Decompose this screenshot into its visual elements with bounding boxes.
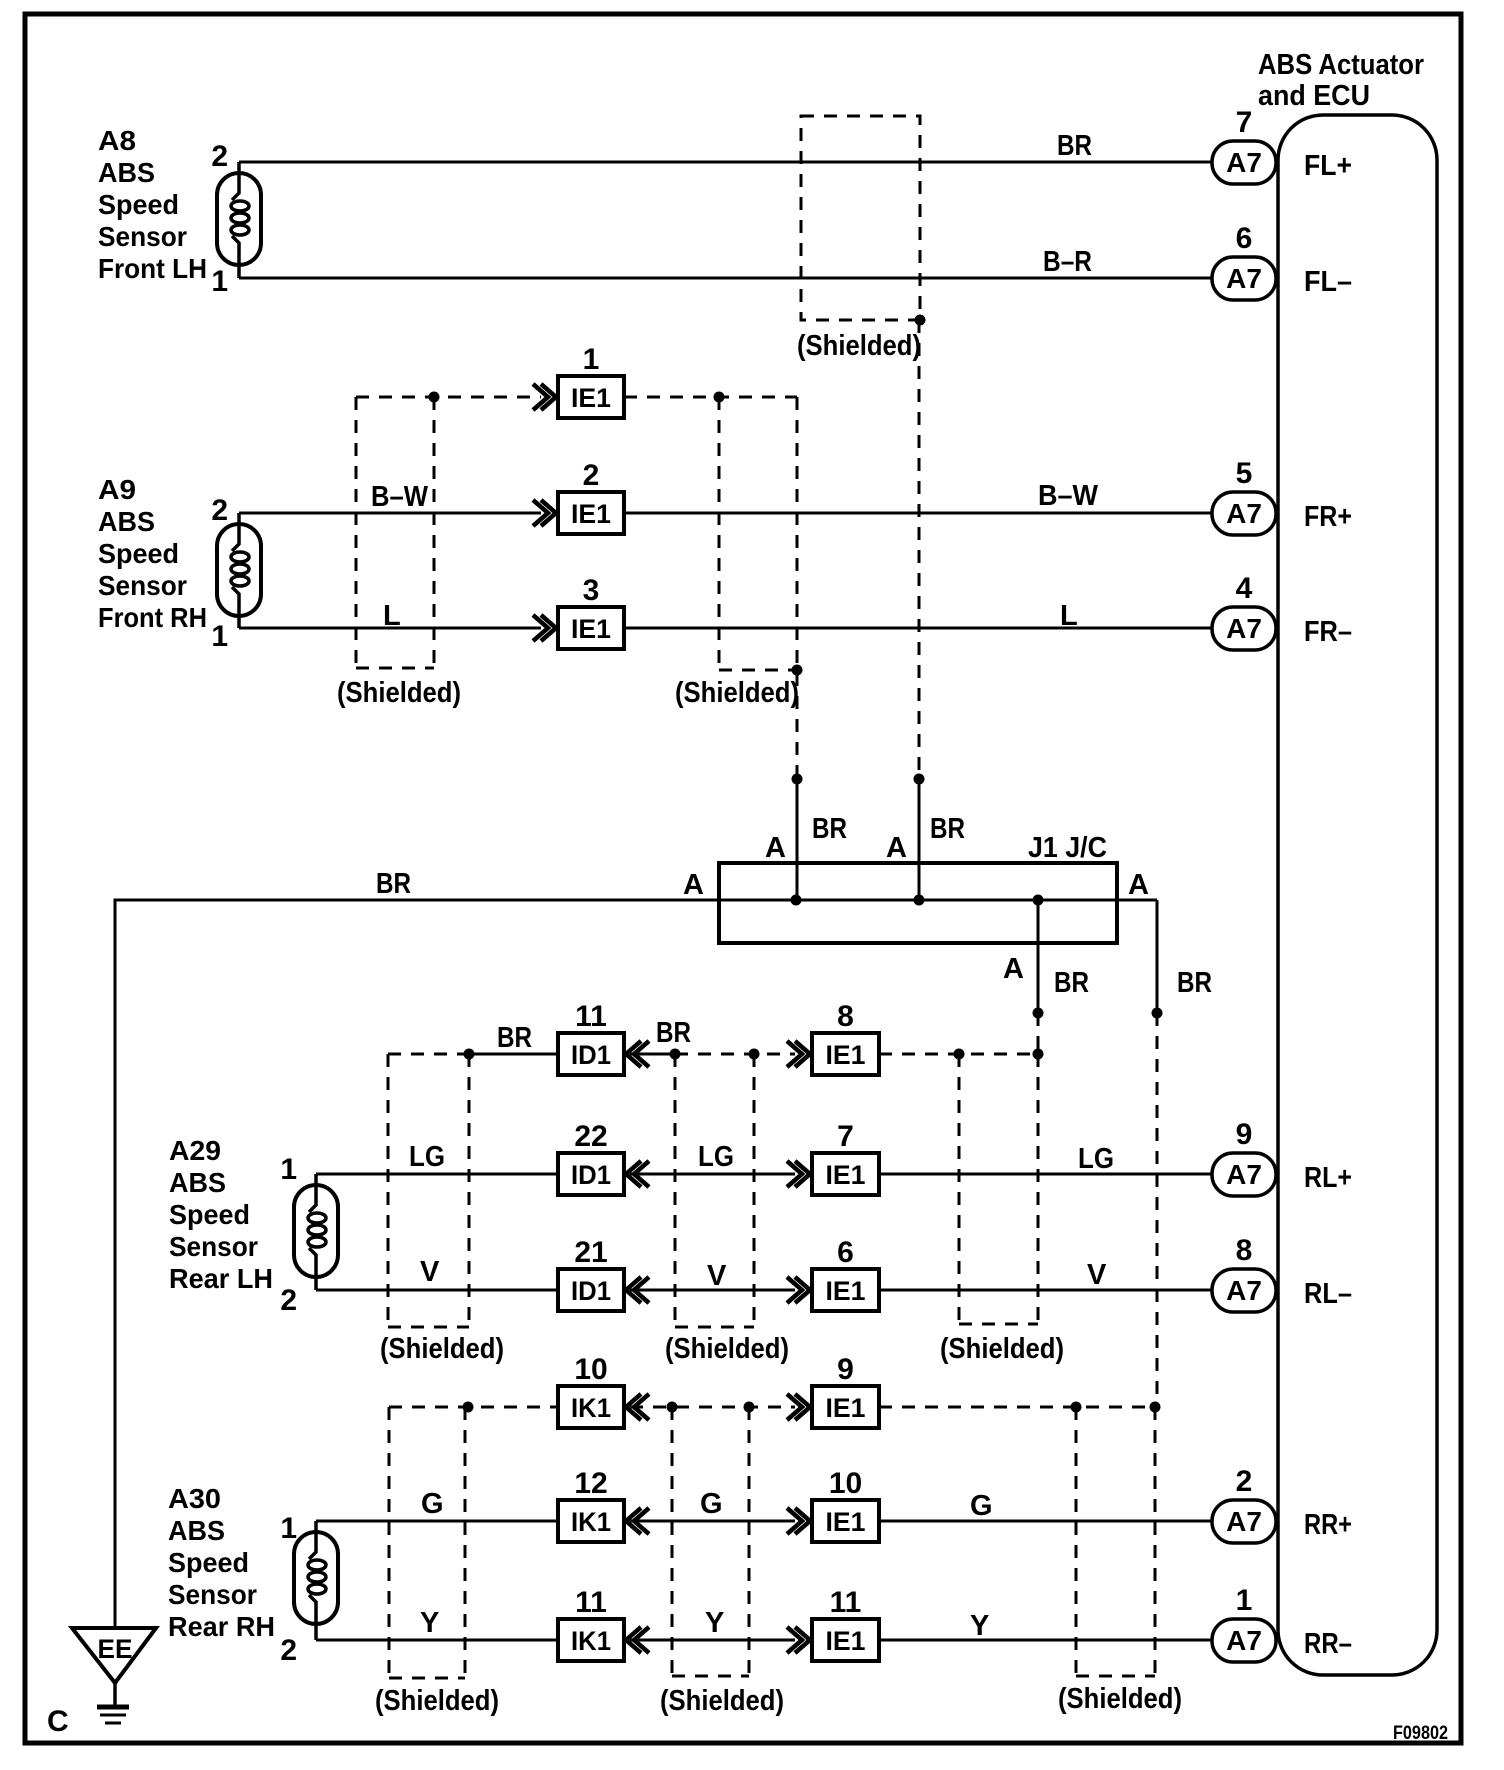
svg-text:Sensor: Sensor <box>169 1231 258 1262</box>
shield drain RL dashed segment mid <box>675 1053 795 1056</box>
svg-text:5: 5 <box>1236 457 1253 490</box>
svg-text:Speed: Speed <box>168 1547 249 1578</box>
svg-text:IE1: IE1 <box>826 1393 866 1423</box>
svg-text:G: G <box>421 1488 444 1520</box>
connector IE1 pin 2 box <box>558 492 624 534</box>
svg-text:Sensor: Sensor <box>168 1579 257 1610</box>
svg-text:ABS: ABS <box>98 157 155 188</box>
sensor A8 ABS Speed Sensor Front LH coil <box>232 162 239 200</box>
svg-text:RL–: RL– <box>1304 1278 1352 1310</box>
connector IK1 pin 11 box <box>558 1619 624 1661</box>
svg-text:12: 12 <box>574 1467 607 1500</box>
svg-text:BR: BR <box>930 813 965 845</box>
junction dot shield drain FL at J1 wire <box>914 774 925 785</box>
svg-text:6: 6 <box>1236 222 1253 255</box>
svg-text:A7: A7 <box>1226 1625 1262 1656</box>
wire RL- from IE1 pin 6 to A7 pin 8 (V) <box>879 1289 1212 1292</box>
junction dot J1 node 3 <box>1033 895 1044 906</box>
svg-text:BR: BR <box>1054 967 1089 999</box>
svg-text:FR+: FR+ <box>1304 501 1352 533</box>
svg-text:A: A <box>886 832 907 864</box>
svg-text:ID1: ID1 <box>571 1276 611 1306</box>
svg-text:F09802: F09802 <box>1393 1723 1448 1744</box>
shield drain wire to IE1 pin 1 (dashed) <box>356 396 541 399</box>
wire RL- from A29 pin 2 to ID1 pin 21 (V) <box>316 1289 558 1292</box>
shield drain RL dashed segment right <box>879 1053 1038 1056</box>
svg-text:7: 7 <box>1236 106 1253 139</box>
svg-text:EE: EE <box>98 1634 133 1664</box>
svg-text:(Shielded): (Shielded) <box>940 1333 1064 1365</box>
svg-text:Y: Y <box>970 1610 989 1642</box>
shield drain vertical to J1 (dashed) <box>796 397 799 779</box>
connector IE1 pin 6 arrow <box>787 1277 810 1303</box>
connector A7 pin 4 oval <box>1212 607 1276 650</box>
connector IE1 pin 2 arrow <box>533 500 556 526</box>
ECU connector block A7 (ABS Actuator and ECU) <box>1278 115 1437 1675</box>
wire shield drain FL into J1 <box>918 779 921 900</box>
connector A7 pin 5 oval <box>1212 492 1276 535</box>
junction dot shield node <box>714 392 725 403</box>
svg-text:LG: LG <box>1078 1143 1114 1175</box>
wire RR+ from IE1 pin 10 to A7 pin 2 (G) <box>879 1520 1212 1523</box>
svg-text:V: V <box>1087 1259 1107 1291</box>
svg-text:ID1: ID1 <box>571 1040 611 1070</box>
wire shield drain RL (dashed) <box>1037 1013 1040 1054</box>
connector A7 pin 9 oval <box>1212 1153 1276 1196</box>
connector IK1 pin 11 arrow <box>626 1627 649 1653</box>
svg-text:Sensor: Sensor <box>98 221 187 252</box>
svg-text:Sensor: Sensor <box>98 570 187 601</box>
connector IE1 pin 10 arrow <box>787 1508 810 1534</box>
connector ID1 pin 22 arrow <box>626 1161 649 1187</box>
connector ID1 pin 21 box <box>558 1269 624 1311</box>
junction dot shield RR 3 <box>744 1402 755 1413</box>
svg-text:G: G <box>970 1490 993 1522</box>
svg-text:A7: A7 <box>1226 1159 1262 1190</box>
junction dot shield RL 2 <box>670 1049 681 1060</box>
shield box around FR wires left (dashed) <box>355 397 358 668</box>
svg-text:ID1: ID1 <box>571 1160 611 1190</box>
junction dot shield RR 2 <box>667 1402 678 1413</box>
svg-text:A7: A7 <box>1226 263 1262 294</box>
svg-text:(Shielded): (Shielded) <box>665 1333 789 1365</box>
svg-text:A: A <box>1003 953 1024 985</box>
connector A7 pin 7 oval <box>1212 141 1276 184</box>
junction dot shield RR 5 <box>1150 1402 1161 1413</box>
svg-text:IE1: IE1 <box>571 499 611 529</box>
shield drain FL vertical to J1 (dashed) <box>918 320 921 779</box>
svg-text:IE1: IE1 <box>826 1507 866 1537</box>
connector IE1 pin 8 arrow <box>787 1041 810 1067</box>
svg-text:ABS: ABS <box>169 1167 226 1198</box>
junction dot drain RL <box>1033 1008 1044 1019</box>
junction dot drain RR <box>1152 1008 1163 1019</box>
wire shield drain RR (dashed) <box>1156 1013 1159 1407</box>
svg-text:LG: LG <box>409 1141 445 1173</box>
svg-text:2: 2 <box>280 1284 297 1317</box>
connector ID1 pin 11 arrow <box>626 1041 649 1067</box>
connector IE1 pin 11 box <box>812 1619 879 1661</box>
ground EE triangle <box>72 1628 156 1683</box>
shield box RL mid (dashed) <box>674 1054 677 1327</box>
shield drain RR dashed segment left <box>389 1406 558 1409</box>
junction dot J1 node 1 <box>791 895 802 906</box>
svg-text:7: 7 <box>837 1120 854 1153</box>
svg-text:A7: A7 <box>1226 613 1262 644</box>
svg-text:B–W: B–W <box>1038 480 1099 512</box>
svg-text:IE1: IE1 <box>826 1040 866 1070</box>
shield drain RR dashed segment right <box>879 1406 1157 1409</box>
svg-text:1: 1 <box>583 343 600 376</box>
svg-text:A7: A7 <box>1226 1506 1262 1537</box>
svg-text:and ECU: and ECU <box>1258 80 1370 112</box>
shield box RL right (dashed) <box>958 1054 961 1324</box>
junction connector J1 J/C box <box>719 863 1117 943</box>
connector IE1 pin 11 arrow <box>787 1627 810 1653</box>
junction dot shield RL 5 <box>1033 1049 1044 1060</box>
wire RL+ from ID1 pin 22 to IE1 pin 7 (LG) <box>630 1173 795 1176</box>
connector IE1 pin 3 box <box>558 607 624 649</box>
svg-text:11: 11 <box>830 1586 862 1619</box>
shield box around FL wires (dashed) <box>801 116 920 320</box>
svg-text:(Shielded): (Shielded) <box>797 330 921 362</box>
svg-text:(Shielded): (Shielded) <box>375 1685 499 1717</box>
svg-text:ABS: ABS <box>168 1515 225 1546</box>
svg-text:3: 3 <box>583 574 600 607</box>
svg-text:8: 8 <box>837 1000 854 1033</box>
svg-text:Y: Y <box>420 1607 439 1639</box>
wire BR to ID1 pin 11 <box>469 1053 558 1056</box>
svg-text:1: 1 <box>211 620 228 653</box>
svg-text:10: 10 <box>574 1353 607 1386</box>
svg-text:Rear LH: Rear LH <box>169 1263 273 1294</box>
connector ID1 pin 22 box <box>558 1153 624 1195</box>
junction dot shield RR 1 <box>463 1402 474 1413</box>
wire FR+ from A9 pin 2 to IE1 pin 2 (B-W) <box>239 512 541 515</box>
svg-text:A9: A9 <box>98 474 136 505</box>
sensor A9 ABS Speed Sensor Front RH coil <box>232 513 239 551</box>
connector IE1 pin 1 arrow <box>533 384 556 410</box>
shield drain RL dashed segment left <box>388 1053 469 1056</box>
connector IK1 pin 10 arrow <box>626 1394 649 1420</box>
svg-text:(Shielded): (Shielded) <box>337 677 461 709</box>
wire shield drain RL from J1 down <box>1037 900 1040 1013</box>
svg-text:(Shielded): (Shielded) <box>660 1685 784 1717</box>
svg-text:8: 8 <box>1236 1234 1253 1267</box>
svg-text:RR+: RR+ <box>1304 1509 1352 1541</box>
connector IE1 pin 9 box <box>812 1386 879 1428</box>
connector A7 pin 6 oval <box>1212 257 1276 300</box>
svg-text:ABS Actuator: ABS Actuator <box>1258 49 1424 81</box>
svg-text:BR: BR <box>1057 130 1092 162</box>
svg-text:C: C <box>47 1705 69 1738</box>
junction dot shield RR 4 <box>1071 1402 1082 1413</box>
sensor A9 ABS Speed Sensor Front RH body <box>217 524 261 616</box>
wire RR+ from IK1 pin 12 to IE1 pin 10 (G) <box>630 1520 795 1523</box>
svg-text:Speed: Speed <box>98 189 179 220</box>
connector IE1 pin 3 arrow <box>533 615 556 641</box>
svg-text:A7: A7 <box>1226 147 1262 178</box>
bus wire through J1 <box>719 899 1157 902</box>
junction dot shield RL 1 <box>464 1049 475 1060</box>
wire FL- from A8 pin 1 to A7 pin 6 (B-R) <box>239 277 1212 280</box>
svg-text:1: 1 <box>280 1512 297 1545</box>
connector IK1 pin 12 box <box>558 1500 624 1542</box>
junction dot shield FL <box>915 315 926 326</box>
svg-text:10: 10 <box>829 1467 862 1500</box>
shield box around FR wires right (dashed) <box>718 397 721 670</box>
wire BR from ID1 pin 11 <box>630 1053 675 1056</box>
svg-text:IE1: IE1 <box>826 1276 866 1306</box>
svg-text:ABS: ABS <box>98 506 155 537</box>
svg-text:BR: BR <box>1177 967 1212 999</box>
connector IE1 pin 10 box <box>812 1500 879 1542</box>
svg-text:A30: A30 <box>168 1483 221 1514</box>
connector IE1 pin 7 arrow <box>787 1161 810 1187</box>
svg-text:1: 1 <box>1236 1584 1253 1617</box>
wire RL+ from A29 pin 1 to ID1 pin 22 (LG) <box>316 1173 558 1176</box>
junction dot shield drain FR at J1 wire <box>792 774 803 785</box>
ground bus wire BR from EE ground to J1 <box>115 900 719 1628</box>
wire RR+ from A30 pin 1 to IK1 pin 12 (G) <box>316 1520 558 1523</box>
svg-text:9: 9 <box>1236 1118 1253 1151</box>
svg-text:6: 6 <box>837 1236 854 1269</box>
svg-text:A: A <box>683 869 704 901</box>
svg-text:RR–: RR– <box>1304 1628 1352 1660</box>
svg-text:A29: A29 <box>169 1135 221 1166</box>
wire FL+ from A8 pin 2 to A7 pin 7 (BR) <box>239 161 1212 164</box>
svg-text:G: G <box>700 1488 723 1520</box>
connector IE1 pin 9 arrow <box>787 1394 810 1420</box>
shield box RL left (dashed) <box>387 1054 390 1327</box>
wire RR- from A30 pin 2 to IK1 pin 11 (Y) <box>316 1639 558 1642</box>
svg-text:A: A <box>1128 869 1149 901</box>
wire RL- from ID1 pin 21 to IE1 pin 6 (V) <box>630 1289 795 1292</box>
junction dot FR shield bottom <box>792 665 803 676</box>
svg-text:Rear RH: Rear RH <box>168 1611 275 1642</box>
svg-text:IK1: IK1 <box>571 1393 611 1423</box>
junction dot J1 node 2 <box>914 895 925 906</box>
svg-text:FL+: FL+ <box>1304 150 1352 182</box>
wire RR- from IK1 pin 11 to IE1 pin 11 (Y) <box>630 1639 795 1642</box>
svg-text:(Shielded): (Shielded) <box>675 677 799 709</box>
shield box RR left (dashed) <box>388 1407 391 1678</box>
svg-text:Front RH: Front RH <box>98 602 207 633</box>
junction dot shield RL 4 <box>954 1049 965 1060</box>
connector IK1 pin 10 box <box>558 1386 624 1428</box>
svg-text:LG: LG <box>698 1141 734 1173</box>
svg-text:FR–: FR– <box>1304 616 1352 648</box>
svg-text:IE1: IE1 <box>571 614 611 644</box>
wire FR+ from IE1 pin 2 to A7 pin 5 (B-W) <box>624 512 1212 515</box>
svg-text:A8: A8 <box>98 125 136 156</box>
svg-text:22: 22 <box>574 1120 607 1153</box>
svg-text:4: 4 <box>1236 572 1253 605</box>
svg-text:FL–: FL– <box>1304 266 1352 298</box>
wire shield drain FR into J1 <box>796 779 799 900</box>
svg-text:IE1: IE1 <box>826 1626 866 1656</box>
svg-text:1: 1 <box>211 265 228 298</box>
connector A7 pin 8 oval <box>1212 1269 1276 1312</box>
svg-text:(Shielded): (Shielded) <box>380 1333 504 1365</box>
junction dot shield RL 3 <box>749 1049 760 1060</box>
svg-text:11: 11 <box>575 1586 607 1619</box>
svg-text:Y: Y <box>705 1607 724 1639</box>
svg-text:IK1: IK1 <box>571 1626 611 1656</box>
svg-text:Speed: Speed <box>98 538 179 569</box>
svg-text:Front LH: Front LH <box>98 253 207 284</box>
svg-text:2: 2 <box>211 494 228 527</box>
svg-text:B–R: B–R <box>1043 246 1092 278</box>
sensor A29 ABS Speed Sensor Rear LH coil <box>309 1174 316 1212</box>
svg-text:V: V <box>707 1260 727 1292</box>
sensor A30 ABS Speed Sensor Rear RH coil <box>309 1521 316 1559</box>
svg-text:A: A <box>765 832 786 864</box>
connector IE1 pin 8 box <box>812 1033 879 1075</box>
wire shield drain RR from J1 down <box>1156 900 1159 1013</box>
svg-text:Speed: Speed <box>169 1199 250 1230</box>
ground earth symbol <box>113 1683 117 1705</box>
sensor A29 ABS Speed Sensor Rear LH body <box>294 1185 338 1277</box>
sensor A30 ABS Speed Sensor Rear RH body <box>294 1532 338 1624</box>
svg-text:1: 1 <box>280 1153 297 1186</box>
connector A7 pin 1 oval <box>1212 1619 1276 1662</box>
wire FR- from IE1 pin 3 to A7 pin 4 (L) <box>624 627 1212 630</box>
svg-text:BR: BR <box>812 813 847 845</box>
wire FR- from A9 pin 1 to IE1 pin 3 (L) <box>239 627 541 630</box>
junction dot on shield drain <box>429 392 440 403</box>
shield box RR mid (dashed) <box>671 1407 674 1676</box>
svg-text:BR: BR <box>376 868 411 900</box>
svg-text:BR: BR <box>497 1022 532 1054</box>
sensor A8 ABS Speed Sensor Front LH body <box>217 173 261 265</box>
connector IK1 pin 12 arrow <box>626 1508 649 1534</box>
svg-text:2: 2 <box>211 140 228 173</box>
svg-text:9: 9 <box>837 1353 854 1386</box>
shield drain RR dashed segment mid <box>630 1406 795 1409</box>
shield drain wire from IE1 pin 1 to node (dashed) <box>624 396 797 399</box>
svg-text:B–W: B–W <box>371 481 429 513</box>
svg-text:RL+: RL+ <box>1304 1162 1352 1194</box>
svg-text:L: L <box>1060 600 1078 632</box>
svg-text:2: 2 <box>1236 1465 1253 1498</box>
svg-text:IE1: IE1 <box>826 1160 866 1190</box>
svg-text:2: 2 <box>583 459 600 492</box>
svg-text:J1 J/C: J1 J/C <box>1028 832 1107 864</box>
connector IE1 pin 6 box <box>812 1269 879 1311</box>
svg-text:V: V <box>420 1256 440 1288</box>
svg-text:A7: A7 <box>1226 1275 1262 1306</box>
connector IE1 pin 1 box <box>558 376 624 418</box>
connector IE1 pin 7 box <box>812 1153 879 1195</box>
svg-text:A7: A7 <box>1226 498 1262 529</box>
connector A7 pin 2 oval <box>1212 1500 1276 1543</box>
shield box RR right (dashed) <box>1075 1407 1078 1676</box>
svg-text:IE1: IE1 <box>571 383 611 413</box>
connector ID1 pin 11 box <box>558 1033 624 1075</box>
wire RR- from IE1 pin 11 to A7 pin 1 (Y) <box>879 1639 1212 1642</box>
svg-text:IK1: IK1 <box>571 1507 611 1537</box>
svg-text:11: 11 <box>575 1000 607 1033</box>
svg-text:21: 21 <box>574 1236 607 1269</box>
svg-text:BR: BR <box>656 1017 691 1049</box>
svg-text:(Shielded): (Shielded) <box>1058 1683 1182 1715</box>
svg-text:L: L <box>383 600 401 632</box>
svg-text:2: 2 <box>280 1634 297 1667</box>
wire RL+ from IE1 pin 7 to A7 pin 9 (LG) <box>879 1173 1212 1176</box>
connector ID1 pin 21 arrow <box>626 1277 649 1303</box>
